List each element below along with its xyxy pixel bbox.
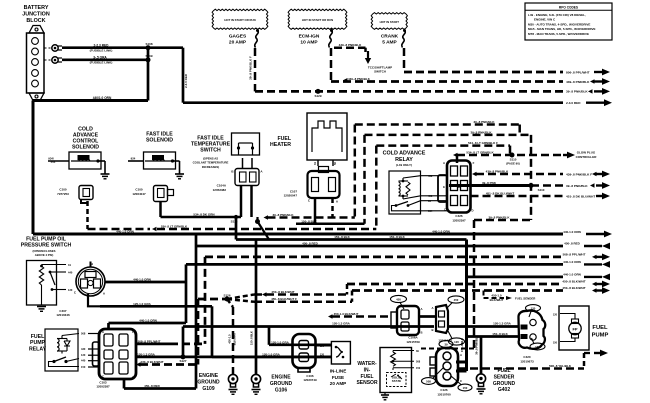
- svg-text:508: 508: [426, 379, 431, 383]
- junction diagonal to 150 BLK: [255, 217, 269, 240]
- fuse CRANK 5 AMP: [381, 29, 406, 48]
- svg-text:BATTERY: BATTERY: [24, 5, 49, 11]
- in-line fuse 20 amp: [330, 342, 351, 387]
- node S110 (lower): [529, 183, 545, 192]
- svg-text:GLOW PLUG: GLOW PLUG: [577, 150, 596, 154]
- svg-text:A: A: [431, 306, 433, 310]
- svg-text:450-.8 BLK/WHT: 450-.8 BLK/WHT: [562, 286, 585, 290]
- wire 508-.8 PPL/WHT row to right: [205, 252, 610, 260]
- node S126: [198, 294, 231, 302]
- wire 120-1.3 GRA from C103: [136, 352, 331, 357]
- wire 39-.8 PNK/BLK mid bus: [264, 213, 355, 220]
- connector C126: [430, 348, 462, 397]
- svg-text:450-.8 BLK/WHT: 450-.8 BLK/WHT: [562, 280, 585, 284]
- wire riser 39 PNK/BLK to row A: [354, 125, 357, 218]
- svg-text:S126: S126: [223, 294, 230, 298]
- node S108: [145, 42, 152, 50]
- svg-text:WATER-: WATER-: [357, 361, 377, 367]
- wire 439-.8 PNK/BLK fuse drop: [330, 48, 333, 82]
- oval label 120 (C420): [526, 305, 541, 317]
- svg-text:INCREASES): INCREASES): [202, 165, 219, 169]
- svg-text:SOLENOID: SOLENOID: [72, 145, 99, 151]
- svg-text:CRANK: CRANK: [381, 34, 399, 40]
- wire 39 PNK/BLK drop to WIF: [474, 220, 479, 355]
- svg-text:39: 39: [444, 342, 448, 346]
- svg-text:440: 440: [68, 270, 73, 274]
- wire 120-1.0 GRA lower to fuse: [212, 354, 331, 357]
- node S110: [506, 153, 520, 166]
- svg-text:450-.8 RED: 450-.8 RED: [144, 384, 161, 388]
- svg-text:31: 31: [313, 162, 317, 165]
- svg-text:A: A: [102, 330, 104, 334]
- wire 440-1.0 ORN row lower: [467, 272, 611, 280]
- wire C126 stubs to 150 riser: [456, 362, 467, 371]
- wire 450 RED riser: [195, 234, 198, 389]
- svg-text:451: 451: [428, 194, 433, 198]
- connector C106: [293, 334, 317, 382]
- svg-text:508-.8 PPL/WHT: 508-.8 PPL/WHT: [138, 339, 161, 343]
- svg-text:39-.8 PNK/BLK: 39-.8 PNK/BLK: [488, 216, 510, 220]
- wire S108 to S109 vertical: [147, 48, 150, 101]
- svg-text:D: D: [471, 209, 473, 213]
- svg-text:440-1.0 ORN: 440-1.0 ORN: [139, 319, 157, 323]
- wire 2-2.3 RED fusible link: [62, 43, 148, 52]
- svg-text:G109: G109: [202, 386, 214, 392]
- svg-text:120-1.3 GRA: 120-1.3 GRA: [137, 352, 156, 356]
- svg-text:450-.8 BLK/WHT: 450-.8 BLK/WHT: [271, 290, 294, 294]
- wire riser 534 LT GRN/BLK to row C: [375, 146, 378, 229]
- svg-text:S129: S129: [314, 94, 321, 98]
- svg-text:450-.8 BLK/WHT F: 450-.8 BLK/WHT F: [271, 297, 297, 301]
- svg-text:A: A: [460, 353, 462, 357]
- svg-text:534-.8 LT GRN/BLK: 534-.8 LT GRN/BLK: [466, 151, 494, 155]
- svg-text:JUNCTION: JUNCTION: [22, 12, 50, 18]
- fast idle temperature switch: [191, 133, 260, 169]
- svg-text:150: 150: [535, 345, 540, 349]
- svg-text:3-.5 ORA: 3-.5 ORA: [93, 55, 107, 59]
- flag HOT IN START OR RUN (ecm): [288, 9, 347, 29]
- svg-text:BLK/WHT: BLK/WHT: [490, 298, 504, 302]
- svg-text:450-.8 RED: 450-.8 RED: [564, 242, 581, 246]
- ground terminal G109 b: [251, 374, 260, 394]
- svg-text:B: B: [420, 331, 422, 335]
- svg-text:39-.8 PNK: 39-.8 PNK: [482, 181, 497, 185]
- svg-text:GROUND: GROUND: [493, 381, 516, 387]
- node S109: [145, 54, 152, 62]
- svg-text:HOT IN START OR RUN: HOT IN START OR RUN: [224, 18, 255, 22]
- wire 450-.8 RED from C103 pin D: [124, 379, 196, 389]
- oval label 39 (C126): [439, 341, 453, 348]
- svg-text:50: 50: [333, 162, 337, 165]
- svg-text:B: B: [431, 328, 433, 332]
- ground terminal G402: [476, 374, 485, 394]
- flag HOT IN START (crank): [371, 13, 407, 30]
- svg-text:G106: G106: [275, 388, 287, 394]
- svg-text:MT8 - MAN TRANS, 5-SPD., W/OVE: MT8 - MAN TRANS, 5-SPD., W/OVERDRIVE: [528, 32, 589, 36]
- svg-text:(FUSIBLE LINK): (FUSIBLE LINK): [90, 49, 113, 53]
- fuse GAGES 20 AMP: [229, 29, 259, 48]
- svg-text:SOLENOID: SOLENOID: [146, 138, 173, 144]
- wire 450 step risers: [347, 284, 352, 302]
- connector C103: [93, 329, 137, 389]
- wire 120 GRA riser down: [211, 306, 214, 357]
- svg-text:20 AMP: 20 AMP: [330, 381, 346, 386]
- svg-text:BLK/WHT: BLK/WHT: [233, 332, 237, 345]
- svg-text:FUEL PUMP OIL: FUEL PUMP OIL: [26, 236, 67, 242]
- relay pin labels: [421, 174, 448, 213]
- wire 806 PPL fuse drop: [403, 48, 406, 72]
- svg-text:150: 150: [553, 342, 558, 345]
- wire 450-.8 BLK/WHT upper branch: [227, 290, 347, 299]
- wire 39-.8 PNK/BLK to right: [255, 88, 610, 95]
- glow plug controller arrow: [563, 150, 597, 159]
- connector C100 (fast idle solenoid): [132, 186, 173, 202]
- svg-text:A: A: [420, 307, 422, 311]
- wire fuel heater 150 BLK pin C down: [314, 198, 317, 224]
- fuel sender ground label: [493, 368, 516, 393]
- svg-text:2-3.0 RED: 2-3.0 RED: [566, 101, 581, 105]
- connector C107: [284, 167, 340, 204]
- fuel pump relay: [29, 329, 99, 371]
- wire row 39-.8 PNK/BLK A: [355, 120, 520, 135]
- svg-text:M30 - AUTO TRANS, 4-SPD., W/OV: M30 - AUTO TRANS, 4-SPD., W/OVERDRIVE: [528, 22, 590, 26]
- svg-text:508: 508: [81, 332, 86, 336]
- ground terminal G109 a: [228, 374, 237, 394]
- svg-text:150-.8 BLK: 150-.8 BLK: [334, 235, 350, 239]
- svg-text:120-1.3 GRA: 120-1.3 GRA: [332, 321, 351, 325]
- svg-text:508: 508: [416, 361, 421, 364]
- wire 450-.8 BLK/WHT row lower: [352, 286, 610, 294]
- wire 120 branch to C106: [269, 327, 331, 345]
- svg-text:ENGINE, VIN C: ENGINE, VIN C: [534, 18, 556, 22]
- wire 508-.8 PPL/WHT from C103: [136, 339, 205, 344]
- svg-text:A: A: [443, 161, 445, 165]
- wire row 534-.8 LT GRN/BLK C: [376, 141, 510, 155]
- svg-text:COLD ADVANCE: COLD ADVANCE: [383, 150, 426, 156]
- svg-text:450-1.3 BLK/WHT: 450-1.3 BLK/WHT: [334, 312, 359, 316]
- svg-text:D: D: [132, 376, 134, 380]
- wire 430-1.0 BLK/WHT to G109: [227, 299, 237, 374]
- oval label 450 (C106A): [391, 295, 407, 309]
- wire C104A pin B down: [240, 186, 243, 217]
- svg-text:120: 120: [531, 306, 536, 310]
- svg-text:2-3.0 RED: 2-3.0 RED: [184, 73, 188, 88]
- svg-text:HEATER: HEATER: [270, 142, 291, 148]
- arrow to TCC/SHIFTLAMP SWITCH: [365, 51, 392, 74]
- svg-text:440/1.0 ORN: 440/1.0 ORN: [93, 96, 112, 100]
- wire 440-1.0 ORN from C103 pin A: [109, 319, 187, 330]
- oval label 150 (C126): [451, 376, 472, 391]
- wire 430 riser: [197, 299, 200, 365]
- wire fuel heater 39 PNK/BLK pin A down: [331, 198, 334, 218]
- svg-text:C: C: [102, 375, 104, 379]
- svg-text:451-.8 DK BLU/WHT: 451-.8 DK BLU/WHT: [486, 192, 515, 196]
- svg-text:SENDER: SENDER: [494, 374, 515, 380]
- svg-text:39-.8 PNK/BLK: 39-.8 PNK/BLK: [473, 120, 495, 124]
- wire 450-1.3 BLK/WHT to 12015404: [328, 312, 436, 319]
- connector C426: [438, 161, 475, 223]
- svg-text:150: 150: [463, 386, 468, 390]
- svg-text:(FUSIBLE LINK): (FUSIBLE LINK): [90, 61, 113, 65]
- connector C106A: [391, 306, 423, 344]
- svg-text:S110: S110: [538, 188, 545, 192]
- svg-text:SWITCH: SWITCH: [374, 70, 386, 74]
- svg-text:IN-: IN-: [364, 367, 371, 373]
- svg-text:12015769: 12015769: [406, 340, 420, 344]
- wire left vertical 440 ORN drop: [32, 101, 35, 235]
- node S127: [179, 354, 186, 362]
- svg-text:534: 534: [428, 209, 433, 213]
- svg-text:G402: G402: [498, 387, 510, 393]
- svg-text:F: F: [473, 161, 475, 165]
- svg-text:439-.8 PNK/BLK: 439-.8 PNK/BLK: [486, 170, 510, 174]
- svg-text:BLOCK: BLOCK: [26, 18, 45, 24]
- svg-text:ENGINE: ENGINE: [199, 373, 219, 379]
- svg-text:534-.8 LT GRN/BLK F: 534-.8 LT GRN/BLK F: [468, 141, 498, 145]
- wire 451-.8 DK BLU/WHT from C426: [471, 192, 611, 200]
- svg-text:150-.8 BLK: 150-.8 BLK: [301, 219, 317, 223]
- svg-text:C: C: [444, 208, 446, 212]
- svg-text:2-2.3 RED: 2-2.3 RED: [94, 43, 110, 47]
- svg-text:508-.8 YEL/BLK: 508-.8 YEL/BLK: [549, 364, 572, 368]
- svg-text:440-1.0 ORN: 440-1.0 ORN: [432, 229, 450, 233]
- svg-text:CONTROLLER: CONTROLLER: [576, 155, 598, 159]
- wire 39-.8 PNK/BLK fuse drop: [249, 48, 256, 91]
- wire row 39-.8 PNK/BLK B: [365, 130, 532, 135]
- svg-text:STATE: STATE: [392, 379, 401, 383]
- wire 440-1.0 ORN row to right: [186, 260, 610, 268]
- wire 534-.8 LT GRN/BLK dashed bus: [88, 224, 377, 231]
- svg-text:FUEL: FUEL: [360, 374, 373, 380]
- svg-text:150-.8 BLK: 150-.8 BLK: [250, 331, 254, 345]
- svg-text:430: 430: [81, 347, 86, 351]
- wire 450-.8 BLK/WHT row upper: [347, 280, 610, 288]
- cold advance control solenoid: [69, 127, 101, 170]
- svg-text:439-.8 PNK/BLK: 439-.8 PNK/BLK: [566, 80, 590, 84]
- svg-text:E: E: [443, 185, 445, 189]
- svg-text:439: 439: [428, 174, 433, 178]
- svg-text:FUEL: FUEL: [277, 136, 291, 142]
- svg-text:450: 450: [396, 297, 401, 301]
- svg-text:12010760: 12010760: [437, 393, 451, 397]
- svg-text:FUSE: FUSE: [332, 375, 344, 380]
- svg-text:150-.8 BLK: 150-.8 BLK: [492, 332, 508, 336]
- wire 120-1.0 GRA from C407: [88, 294, 212, 306]
- svg-text:(L49 ONLY): (L49 ONLY): [396, 163, 412, 167]
- wire 150-.8 BLK mid bus: [296, 219, 365, 224]
- svg-text:12020749: 12020749: [303, 378, 317, 382]
- svg-text:440-1.0 ORN: 440-1.0 ORN: [133, 278, 151, 282]
- ground cold advance solenoid: [98, 161, 110, 179]
- svg-text:430-.8 BLK/WHT: 430-.8 BLK/WHT: [140, 360, 163, 364]
- wire 150-.8 BLK bus: [236, 217, 467, 240]
- wire 806-.8 PPL/WHT to right: [404, 69, 610, 76]
- svg-text:FUEL SENDER: FUEL SENDER: [515, 296, 536, 300]
- oval label 120 (12015404): [448, 331, 465, 345]
- wire 440 riser to row: [185, 264, 188, 323]
- engine ground G109: [197, 373, 220, 392]
- svg-text:508-.8 PPL/WHT: 508-.8 PPL/WHT: [563, 252, 586, 256]
- wire 150-.8 BLK to C420: [467, 332, 520, 337]
- wire 439-.8 PNK/BLK from C426: [472, 170, 610, 178]
- svg-text:ENGINE: ENGINE: [271, 375, 291, 381]
- svg-text:120: 120: [553, 314, 558, 317]
- oval label 508 (C126): [422, 368, 444, 384]
- svg-text:SWITCH: SWITCH: [200, 148, 221, 154]
- svg-text:12052387: 12052387: [96, 385, 110, 389]
- svg-text:FUEL: FUEL: [31, 334, 45, 340]
- oval label 150 (C420): [530, 338, 545, 350]
- wire 39-.8 PNK from C426: [449, 181, 610, 189]
- svg-text:440-1.0 ORN: 440-1.0 ORN: [563, 272, 581, 276]
- fuse ECM-IGN 10 AMP: [299, 29, 333, 48]
- svg-text:ECM-IGN: ECM-IGN: [299, 34, 320, 40]
- svg-text:450-.8 RED: 450-.8 RED: [302, 241, 319, 245]
- svg-text:PUMP: PUMP: [30, 340, 46, 346]
- svg-text:S127: S127: [179, 359, 186, 363]
- svg-text:RPO CODES: RPO CODES: [559, 5, 578, 9]
- svg-text:39-.8 PNK/BLK: 39-.8 PNK/BLK: [566, 90, 588, 94]
- svg-text:IN-LINE: IN-LINE: [330, 369, 347, 374]
- svg-text:150-.8 BLK: 150-.8 BLK: [389, 235, 405, 239]
- wire 430-.8 BLK/WHT from C103: [136, 360, 198, 367]
- fuel heater: [270, 113, 347, 166]
- fuel sender reference arrow: [484, 291, 537, 302]
- svg-text:120-1.0 GRA: 120-1.0 GRA: [271, 340, 290, 344]
- engine ground G106: [270, 375, 293, 394]
- wire riser 39 PNK/BLK down from S110: [530, 135, 533, 220]
- wire 2-3.0 RED from S108: [148, 48, 188, 103]
- svg-text:440-1.0 ORN: 440-1.0 ORN: [563, 230, 581, 234]
- wire 534 dashed from C100 down: [86, 201, 89, 229]
- svg-text:12020047: 12020047: [284, 194, 298, 198]
- wire fuel sender ground drop: [480, 337, 483, 375]
- svg-text:(PAGE 90): (PAGE 90): [506, 162, 520, 166]
- svg-text:439-.8 PNK/BLK: 439-.8 PNK/BLK: [348, 77, 371, 81]
- svg-text:PRESSURE SWITCH: PRESSURE SWITCH: [21, 243, 72, 249]
- svg-text:12052397: 12052397: [452, 219, 466, 223]
- wire 150 BLK drop to G109: [250, 240, 257, 375]
- svg-text:120: 120: [320, 345, 325, 348]
- svg-text:GAGES: GAGES: [229, 34, 247, 40]
- svg-text:924: 924: [131, 157, 136, 161]
- fuel pump oil pressure switch: [21, 236, 73, 311]
- wire 450-.8 RED row to right: [196, 241, 610, 249]
- svg-text:SENSOR: SENSOR: [356, 380, 378, 386]
- fuel pump: [553, 306, 609, 350]
- svg-text:120-1.0 GRA: 120-1.0 GRA: [133, 302, 152, 306]
- svg-text:39-.8 PNK/BLK F: 39-.8 PNK/BLK F: [249, 56, 253, 80]
- svg-text:RELAY: RELAY: [29, 346, 47, 352]
- svg-text:440: 440: [81, 359, 86, 363]
- svg-text:534-.8 DK GRN: 534-.8 DK GRN: [193, 213, 214, 217]
- wire 120-1.0 GRA C106 to fuse: [316, 345, 332, 348]
- svg-text:HOT IN START OR RUN: HOT IN START OR RUN: [302, 18, 333, 22]
- svg-text:806-.8 PPL/WHT: 806-.8 PPL/WHT: [566, 70, 590, 74]
- svg-text:150: 150: [81, 365, 86, 369]
- svg-text:534-.8 LT GRN/BLK: 534-.8 LT GRN/BLK: [161, 224, 188, 228]
- svg-text:PUMP: PUMP: [592, 333, 609, 339]
- svg-text:FP: FP: [572, 327, 577, 332]
- svg-text:12052382: 12052382: [213, 188, 227, 192]
- svg-text:451-.8 DK BLU/WHT: 451-.8 DK BLU/WHT: [566, 194, 595, 198]
- connector C420: [518, 310, 545, 363]
- wire 39-.8 PNK/BLK lower link: [474, 216, 531, 221]
- svg-text:440-1.0 ORN: 440-1.0 ORN: [563, 260, 581, 264]
- svg-text:430-1.0: 430-1.0: [228, 334, 232, 344]
- svg-text:7977253: 7977253: [57, 192, 69, 196]
- svg-text:39-.8 PNK/BLK: 39-.8 PNK/BLK: [475, 335, 479, 355]
- ring terminal eyelet 2: [45, 57, 63, 63]
- wire 439-.8 PNK/BLK to right: [331, 77, 610, 85]
- svg-text:F: F: [132, 330, 134, 334]
- svg-text:39-.8 PNK/BLK: 39-.8 PNK/BLK: [566, 184, 588, 188]
- node S116: [231, 186, 252, 224]
- svg-text:12010673: 12010673: [520, 359, 534, 363]
- wire row 534-.8 LT GRN/BLK to glow plug controller: [453, 151, 563, 164]
- svg-text:39-.8 PNK/BLK: 39-.8 PNK/BLK: [470, 130, 492, 134]
- wire 120-1.3 GRA upper run: [183, 321, 519, 326]
- wire 2-3.0 RED to right: [183, 99, 612, 106]
- wire 924 stub fast idle solenoid: [128, 157, 144, 162]
- svg-text:GROUND: GROUND: [270, 381, 293, 387]
- wire riser 39 PNK/BLK to row B: [363, 135, 366, 224]
- svg-text:120-1.3 GRA: 120-1.3 GRA: [493, 321, 512, 325]
- svg-text:39-.8 PNK/BLK: 39-.8 PNK/BLK: [272, 213, 294, 217]
- cold advance relay: [383, 150, 426, 214]
- svg-text:S108: S108: [145, 42, 152, 46]
- svg-text:120: 120: [81, 353, 86, 357]
- battery junction block: [22, 5, 50, 101]
- svg-text:12064047: 12064047: [132, 192, 146, 196]
- svg-text:120: 120: [320, 354, 325, 357]
- svg-text:439-.8 PNK/BLK: 439-.8 PNK/BLK: [339, 43, 363, 47]
- svg-text:HOT IN START: HOT IN START: [380, 20, 400, 24]
- svg-text:554: 554: [51, 160, 56, 164]
- ground fast idle solenoid: [173, 161, 185, 179]
- wire 150 BLK right riser: [460, 240, 467, 372]
- ring terminal eyelet 1: [45, 45, 63, 51]
- svg-text:GROUND: GROUND: [197, 380, 220, 386]
- oval label 450 (12015404): [447, 296, 464, 308]
- wire WIF 39 to riser: [421, 348, 474, 350]
- wire 934 stub cold advance solenoid: [48, 157, 69, 165]
- wire 3-.5 ORA fusible link: [62, 55, 148, 64]
- legend RPO CODES box: [525, 3, 612, 40]
- svg-text:120: 120: [68, 288, 73, 292]
- flag HOT IN START OR RUN (gages): [212, 9, 268, 29]
- svg-text:12010346: 12010346: [56, 313, 70, 317]
- wire 534 DK GRN from fast idle solenoid connector: [161, 202, 242, 218]
- node S129: [314, 89, 321, 98]
- svg-text:440-1.0 ORN: 440-1.0 ORN: [116, 229, 134, 233]
- wire 440-1.0 ORN main bus: [33, 229, 612, 237]
- svg-text:5 AMP: 5 AMP: [382, 40, 397, 46]
- water-in-fuel sensor: [356, 348, 420, 400]
- wire 508-.8 YEL/BLK: [458, 350, 608, 369]
- wire 440/1.0 ORN battery feed: [33, 96, 148, 101]
- svg-text:120: 120: [454, 340, 459, 344]
- fast idle solenoid: [144, 132, 176, 170]
- svg-text:439-.8 PNK/BLK F: 439-.8 PNK/BLK F: [566, 172, 592, 176]
- connector C104A: [213, 158, 264, 192]
- connector 12015404: [431, 305, 452, 343]
- svg-text:C: C: [460, 379, 462, 383]
- connector C407: [56, 262, 106, 318]
- wire 120 riser from S127: [182, 327, 185, 357]
- svg-text:ABOVE 4 PSI): ABOVE 4 PSI): [35, 253, 54, 257]
- wire 508 riser: [204, 257, 207, 344]
